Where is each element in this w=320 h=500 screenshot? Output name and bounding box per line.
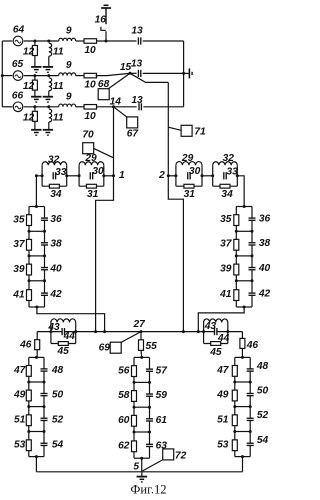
svg-text:34: 34: [50, 189, 62, 200]
junction node-1 drop on lower tank row: [94, 330, 97, 333]
svg-text:Фиг.12: Фиг.12: [130, 483, 166, 497]
wire left bus connecting sources 64 65 66: [1, 41, 3, 107]
svg-text:47: 47: [13, 365, 27, 376]
junction node-2 drop on lower tank row: [182, 330, 185, 333]
svg-text:50: 50: [52, 390, 64, 401]
svg-text:1: 1: [119, 170, 125, 181]
wire capacitor 13 row 3 to right vertical: [143, 106, 183, 108]
upper right ladder network resistors 35 37 39 41 capacitors 36 38 40 42: [235, 207, 237, 308]
wire node 2 down to lower tank row: [168, 176, 183, 332]
resistor 46 (right): [240, 338, 245, 348]
junction ladder step on lower tank row left: [103, 330, 106, 333]
lead from block 70 to node-1 vertical: [94, 148, 114, 157]
switch node 15: [129, 72, 132, 75]
wire between left tanks: [67, 175, 79, 177]
junction on left bus at row 2: [1, 74, 4, 77]
svg-text:53: 53: [14, 439, 26, 450]
svg-text:39: 39: [13, 264, 25, 275]
svg-text:51: 51: [14, 414, 26, 425]
tank circuit 29 30 31 (right): [175, 165, 177, 186]
upper left ladder network resistors 35 37 39 41 capacitors 36 38 40 42: [28, 207, 30, 308]
svg-text:13: 13: [131, 58, 143, 69]
inductor 11 (row 64): [49, 43, 52, 56]
svg-text:67: 67: [127, 129, 140, 140]
wire bottom right ladder to ground bus: [242, 457, 244, 472]
wire node 27 down through resistor 55: [140, 332, 142, 340]
node 2: [167, 174, 170, 177]
ground below inductor 11 row 65: [43, 96, 53, 98]
lead from node 15 to block 68: [108, 73, 130, 89]
resistor 10 (row 66): [84, 105, 97, 110]
svg-text:45: 45: [209, 347, 222, 358]
svg-text:12: 12: [23, 47, 35, 58]
junction at top of right upper ladder: [243, 205, 246, 208]
tank circuit 29 30 31 (left): [78, 165, 80, 186]
svg-text:66: 66: [12, 90, 24, 101]
svg-text:16: 16: [95, 14, 107, 25]
block 72: [163, 449, 174, 460]
svg-text:50: 50: [257, 385, 269, 396]
svg-text:42: 42: [49, 289, 62, 300]
svg-text:35: 35: [220, 214, 232, 225]
svg-text:10: 10: [84, 80, 96, 91]
svg-text:44: 44: [63, 331, 76, 342]
lead from block 71 to node-2 vertical: [168, 127, 181, 130]
resistor 10 (row 64): [84, 39, 97, 44]
tank circuit 43 44 45 (left): [50, 322, 52, 343]
svg-text:54: 54: [52, 439, 64, 450]
svg-text:5: 5: [133, 461, 139, 472]
wire from switch branch down to node 2: [167, 82, 169, 175]
lower tank row wire: [37, 331, 242, 333]
junction at bottom of right upper ladder: [243, 306, 246, 309]
junction bottom of bottom left ladder: [35, 455, 38, 458]
inductor 9 (row 66): [59, 104, 76, 107]
ground symbol at node 5: [141, 472, 143, 477]
lower switch branch from node 15: [130, 73, 168, 82]
svg-text:60: 60: [118, 415, 130, 426]
svg-text:34: 34: [221, 189, 233, 200]
antenna lead down: [105, 8, 107, 24]
counterpoise earth symbol (sideways) at right vertical: [184, 72, 190, 74]
svg-text:55: 55: [146, 341, 158, 352]
wire left tank pair to node 1: [104, 175, 114, 177]
wire node 2 to right tank pair: [168, 175, 176, 177]
node 14: [112, 105, 115, 108]
junction at bottom of left upper ladder: [35, 306, 38, 309]
svg-text:61: 61: [156, 415, 168, 426]
svg-text:32: 32: [48, 155, 60, 166]
svg-text:62: 62: [118, 441, 130, 452]
wire inductor 9 to resistor 10 row 66: [76, 106, 84, 108]
junction under antenna switch 16: [105, 40, 108, 43]
wire row 1 capacitor 13 to right vertical: [143, 40, 184, 42]
wire left upper ladder bottom stepping to lower tank row: [37, 307, 105, 332]
svg-text:41: 41: [12, 289, 25, 300]
tank circuit 32 33 34 (right): [212, 165, 214, 186]
svg-text:36: 36: [259, 214, 271, 225]
junction node resistor 12 row 65: [33, 74, 36, 77]
svg-text:70: 70: [82, 130, 94, 141]
lead from block 72 to ground node: [143, 460, 163, 471]
svg-text:35: 35: [13, 214, 25, 225]
svg-text:41: 41: [219, 289, 232, 300]
svg-text:40: 40: [49, 263, 62, 274]
svg-text:9: 9: [66, 91, 72, 102]
switch 16 contact hook: [101, 27, 106, 31]
capacitor 13 (row 3): [139, 103, 141, 111]
wire bottom center ladder to ground bus: [141, 458, 143, 472]
svg-text:38: 38: [259, 238, 271, 249]
svg-text:30: 30: [189, 166, 201, 177]
resistor 55: [139, 340, 144, 351]
svg-text:42: 42: [258, 289, 271, 300]
svg-text:13: 13: [131, 25, 143, 36]
svg-text:33: 33: [55, 167, 67, 178]
svg-text:57: 57: [156, 365, 169, 376]
svg-text:38: 38: [50, 239, 62, 250]
wire row 64 from bus to AC source: [2, 40, 12, 42]
resistor 12 (row 64): [34, 41, 36, 45]
svg-text:48: 48: [256, 361, 269, 372]
bottom center ladder resistors 56 58 60 62 capacitors 57 59 61 63: [133, 357, 135, 458]
inductor 11 (row 66): [49, 109, 52, 122]
svg-text:52: 52: [52, 414, 64, 425]
junction ladder step on lower tank row right: [197, 330, 200, 333]
right vertical wire joining rows 1-3 (capacitor column): [183, 41, 185, 107]
svg-text:43: 43: [47, 322, 60, 333]
junction node inductor 11 row 66: [47, 105, 50, 108]
junction top of bottom center ladder: [140, 356, 143, 359]
ground below resistor 12 row 65: [31, 96, 41, 98]
svg-text:30: 30: [92, 166, 104, 177]
capacitor 13 (row 2): [138, 69, 140, 77]
bottom right ladder resistors 47 49 51 53 capacitors 48 50 52 54: [234, 357, 236, 456]
junction node resistor 12 row 64: [33, 40, 36, 43]
AC source 65: [13, 71, 23, 81]
svg-text:43: 43: [204, 321, 217, 332]
resistor 12 (row 65): [34, 76, 36, 80]
junction node resistor 12 row 66: [33, 105, 36, 108]
junction top of bottom left ladder: [35, 356, 38, 359]
capacitor 13 (row 1): [138, 37, 140, 45]
lead from node 27 to block 69: [121, 332, 141, 343]
resistor 10 (row 65): [84, 73, 97, 78]
wire bottom left ladder to ground bus: [35, 457, 37, 472]
ground below inductor 11 row 64: [43, 66, 53, 68]
ground bus wire node 5: [36, 471, 242, 473]
svg-text:9: 9: [66, 60, 72, 71]
wire row 1 resistor 10 to capacitor 13: [97, 40, 137, 42]
wire node 15 to capacitor 13 row 2: [130, 72, 137, 74]
svg-text:47: 47: [216, 365, 230, 376]
svg-text:39: 39: [220, 263, 232, 274]
svg-text:12: 12: [23, 112, 35, 123]
ground below resistor 12 row 64: [31, 66, 41, 68]
svg-text:33: 33: [227, 166, 239, 177]
svg-text:58: 58: [118, 390, 130, 401]
inductor 9 (row 64): [59, 38, 76, 41]
inductor 11 (row 65): [49, 78, 52, 91]
svg-text:45: 45: [57, 346, 70, 357]
svg-text:31: 31: [87, 189, 99, 200]
switch 16 lower lead to row 1: [105, 31, 107, 41]
antenna symbol at top: [104, 4, 109, 6]
AC source 64: [13, 36, 23, 46]
junction bottom of bottom center ladder: [140, 457, 143, 460]
svg-text:15: 15: [120, 62, 132, 73]
wire inductor 9 to resistor 10 row 65: [76, 75, 84, 77]
svg-text:13: 13: [131, 95, 143, 106]
junction bottom of bottom right ladder: [241, 455, 244, 458]
wire capacitor 13 row 2 to right vertical: [143, 72, 184, 74]
svg-text:53: 53: [217, 439, 229, 450]
svg-text:49: 49: [216, 390, 229, 401]
svg-text:11: 11: [53, 47, 64, 58]
wire right upper ladder bottom stepping to lower tank row: [198, 307, 244, 332]
svg-text:11: 11: [53, 81, 64, 92]
resistor 12 (row 66): [34, 107, 36, 111]
svg-text:69: 69: [99, 342, 111, 353]
wire row 3 resistor 10 to node 14: [97, 106, 137, 108]
svg-text:54: 54: [257, 435, 269, 446]
svg-text:29: 29: [181, 153, 194, 164]
svg-text:49: 49: [13, 390, 26, 401]
svg-text:9: 9: [66, 26, 72, 37]
svg-text:27: 27: [133, 319, 147, 330]
svg-text:68: 68: [98, 79, 110, 90]
wire row 65 source to components: [24, 75, 59, 77]
wire row 64 source to components: [24, 40, 59, 42]
wire upper tank row right end down to right ladder: [237, 176, 244, 207]
wire row 66 source to components: [24, 106, 59, 108]
svg-text:36: 36: [50, 214, 62, 225]
svg-text:40: 40: [258, 263, 271, 274]
svg-text:11: 11: [53, 112, 64, 123]
inductor 9 (row 65): [59, 73, 76, 76]
node 27: [140, 330, 143, 333]
junction node inductor 11 row 65: [47, 74, 50, 77]
block 69: [110, 342, 121, 353]
svg-text:10: 10: [84, 45, 96, 56]
wire upper tank row left end down to left ladder: [36, 176, 42, 207]
tank circuit 43 44 45 (right): [203, 322, 205, 343]
svg-text:52: 52: [257, 410, 269, 421]
wire node 14 down to node 1: [113, 107, 115, 176]
svg-text:59: 59: [156, 390, 168, 401]
svg-text:51: 51: [217, 414, 229, 425]
wire node 1 down to lower tank row: [96, 176, 114, 332]
AC source 66: [13, 102, 23, 112]
svg-text:31: 31: [184, 189, 196, 200]
wire lower tank row left end down through resistor 46: [36, 332, 38, 340]
bottom left ladder resistors 47 49 51 53 capacitors 48 50 52 54: [28, 357, 30, 456]
block 71: [181, 125, 192, 136]
block 68: [98, 89, 109, 100]
resistor 46 (left): [35, 340, 40, 350]
svg-text:32: 32: [223, 153, 235, 164]
wire row 65 from bus to AC source: [2, 75, 12, 77]
wire lower tank row right end down through resistor 46: [241, 332, 243, 339]
ground below inductor 11 row 66: [43, 129, 53, 131]
junction at right vertical row 2: [182, 72, 185, 75]
wire inductor 9 to resistor 10 row 64: [76, 40, 84, 42]
ground below resistor 12 row 66: [31, 129, 41, 131]
wire between right tanks: [202, 175, 213, 177]
wire row 66 from bus to AC source: [2, 106, 12, 108]
junction at top of left upper ladder: [35, 205, 38, 208]
switch 15 arm rising from resistor 10 line: [96, 73, 131, 75]
svg-text:72: 72: [175, 450, 187, 461]
svg-text:12: 12: [23, 81, 35, 92]
tank circuit 32 33 34 (left): [41, 165, 43, 186]
svg-text:56: 56: [118, 365, 130, 376]
svg-text:44: 44: [217, 333, 230, 344]
svg-text:29: 29: [84, 153, 97, 164]
svg-text:48: 48: [51, 365, 64, 376]
svg-text:14: 14: [110, 97, 122, 108]
svg-text:37: 37: [220, 239, 233, 250]
lead from node 14 to block 67: [114, 107, 128, 117]
svg-text:64: 64: [13, 25, 25, 36]
svg-text:71: 71: [194, 126, 206, 137]
svg-text:46: 46: [19, 339, 32, 350]
svg-text:10: 10: [84, 111, 96, 122]
node 1: [112, 174, 115, 177]
svg-text:65: 65: [12, 59, 24, 70]
block 70: [83, 143, 94, 154]
svg-text:2: 2: [158, 170, 165, 181]
svg-text:37: 37: [13, 239, 26, 250]
block 67: [127, 117, 138, 128]
junction at left end of upper tank row: [35, 174, 38, 177]
junction node inductor 11 row 64: [47, 40, 50, 43]
svg-text:46: 46: [246, 340, 259, 351]
junction top of bottom right ladder: [241, 356, 244, 359]
